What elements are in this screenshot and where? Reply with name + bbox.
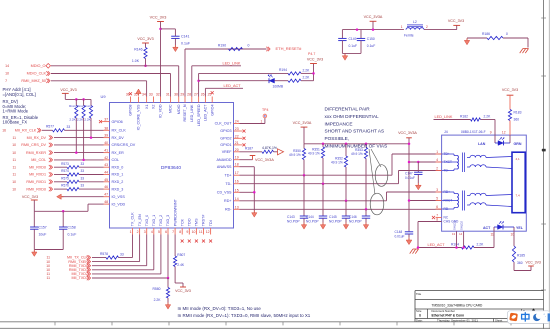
svg-text:47: 47: [104, 193, 108, 197]
svg-text:C143: C143: [287, 215, 295, 219]
svg-text:32: 32: [156, 93, 160, 97]
wire net MII_RX_CLK with series resistor R577 33: [42, 129, 53, 131]
svg-text:10: 10: [12, 151, 16, 155]
ground below C144: [322, 223, 324, 225]
svg-text:RXD_0: RXD_0: [112, 165, 124, 169]
svg-text:TRST#: TRST#: [202, 214, 206, 227]
svg-text:P4.7: P4.7: [308, 52, 315, 56]
svg-text:J4: J4: [444, 130, 448, 134]
svg-text:L2: L2: [413, 20, 417, 24]
no-connect X on J4 NC pin: [432, 216, 435, 219]
svg-text:C141: C141: [181, 35, 190, 39]
wire net TD- from pin 16 to J4: [240, 183, 399, 185]
capacitor C148 0.01uF on RXCT: [405, 231, 413, 233]
svg-text:14: 14: [5, 64, 9, 68]
svg-text:LED_ACT: LED_ACT: [204, 104, 208, 121]
wire net MII_TXD2 to U9 pin 5: [92, 273, 161, 275]
svg-text:Sheet: Sheet: [495, 318, 503, 322]
svg-text:xxx OHM DIFFERENTIAL: xxx OHM DIFFERENTIAL: [325, 114, 379, 119]
svg-text:TXD_3: TXD_3: [166, 215, 170, 226]
svg-text:0.01uF: 0.01uF: [395, 235, 405, 239]
svg-text:6: 6: [165, 230, 167, 234]
svg-text:8: 8: [436, 218, 438, 222]
wire VCC_3V3 to IO_VDD pin 32: [160, 22, 162, 97]
svg-text:33: 33: [67, 125, 71, 129]
svg-text:36: 36: [126, 93, 130, 97]
svg-text:GPIO3: GPIO3: [220, 129, 231, 133]
svg-text:Rxxx: Rxxx: [84, 104, 91, 108]
svg-text:2: 2: [137, 230, 139, 234]
svg-text:R194: R194: [279, 68, 287, 72]
svg-text:2.2K: 2.2K: [84, 117, 91, 121]
svg-text:CLK_OUT: CLK_OUT: [215, 122, 233, 126]
svg-text:46: 46: [104, 185, 108, 189]
svg-text:11: 11: [13, 165, 17, 169]
svg-text:C158: C158: [68, 225, 76, 229]
svg-text:33: 33: [81, 162, 85, 166]
svg-text:R578: R578: [100, 252, 108, 256]
svg-text:7: 7: [172, 230, 174, 234]
transformer T1 TD channel: [442, 153, 454, 155]
svg-text:IO_VDD: IO_VDD: [159, 104, 163, 118]
svg-text:ANAVDD: ANAVDD: [216, 158, 231, 162]
svg-text:NO.POP: NO.POP: [329, 220, 342, 224]
svg-text:TXD_0: TXD_0: [145, 215, 149, 226]
svg-text:43: 43: [104, 163, 108, 167]
svg-text:4: 4: [151, 230, 153, 234]
wire J4 pin 10 to resistor R185 360: [513, 231, 515, 246]
svg-text:VCC_3V3A: VCC_3V3A: [293, 121, 312, 125]
svg-text:39: 39: [104, 134, 108, 138]
ground below R580: [167, 303, 169, 305]
svg-text:11: 11: [199, 230, 203, 234]
wire net MII_RXD1 with series resistor R574 33: [54, 174, 67, 176]
svg-text:11: 11: [47, 276, 51, 280]
svg-text:1: 1: [261, 119, 263, 123]
svg-text:IO_CORE_VSS: IO_CORE_VSS: [137, 104, 141, 130]
capacitor C144 NO_POP: [322, 184, 324, 216]
wire LED_ACT LED row from U9 pin 26: [197, 79, 200, 82]
svg-text:22: 22: [235, 134, 239, 138]
svg-text:SHORT AND STRAIGHT AS: SHORT AND STRAIGHT AS: [325, 129, 385, 134]
svg-text:VCC_3V3: VCC_3V3: [60, 88, 76, 92]
U9 right pins 24-13 with names: [234, 123, 240, 125]
svg-text:MII_RX_DV: MII_RX_DV: [27, 136, 47, 140]
svg-text:24: 24: [235, 120, 239, 124]
svg-text:IO_VDD: IO_VDD: [112, 202, 126, 206]
svg-text:MINIMUM NUMBER OF VIAS: MINIMUM NUMBER OF VIAS: [325, 144, 388, 149]
svg-text:0: 0: [506, 32, 508, 36]
svg-text:C149: C149: [349, 37, 357, 41]
svg-text:LED_SPEED: LED_SPEED: [197, 104, 201, 126]
svg-text:0.1uF: 0.1uF: [181, 42, 191, 46]
resistor R580 2.2K strap pulldown: [167, 278, 169, 288]
resistor R184 2.2K: [462, 246, 475, 249]
svg-text:25: 25: [208, 93, 212, 97]
svg-text:08B0-1X1T-06-F: 08B0-1X1T-06-F: [461, 130, 486, 134]
svg-text:33: 33: [149, 93, 153, 97]
svg-text:VCC_3V3: VCC_3V3: [502, 88, 518, 92]
svg-text:MDIO_O: MDIO_O: [31, 64, 46, 68]
svg-text:POSSIBLE,: POSSIBLE,: [325, 136, 350, 141]
svg-text:DIFFERENTIAL PAIR: DIFFERENTIAL PAIR: [325, 107, 371, 112]
chassis ground at R186: [525, 49, 528, 54]
wire J4 shield pins 13 14 to chassis net: [456, 231, 458, 247]
resistor R351 49.9 1% termination: [322, 144, 324, 147]
ground symbol up-arrow on IO_CORE_VSS pin 35: [138, 94, 140, 96]
svg-text:34: 34: [142, 93, 146, 97]
svg-text:TXD_2: TXD_2: [159, 215, 163, 226]
svg-text:GPIO1: GPIO1: [220, 143, 231, 147]
svg-text:41: 41: [104, 149, 108, 153]
wire net MII_COL: [54, 159, 104, 161]
svg-text:LED_LINK: LED_LINK: [223, 61, 241, 65]
svg-text:40: 40: [104, 141, 108, 145]
svg-text:23: 23: [235, 127, 239, 131]
wire CHS GND to chassis: [418, 221, 442, 223]
svg-text:C148: C148: [395, 230, 403, 234]
svg-text:RXD_2: RXD_2: [112, 180, 124, 184]
wire net RMII_RXD1 with series resistor R575 33: [54, 181, 67, 183]
svg-text:GPIO8: GPIO8: [129, 105, 133, 116]
wire LED_SPEED row from U9 pin 27: [198, 73, 200, 96]
svg-text:TCK: TCK: [180, 218, 184, 226]
capacitor C149 0.1uF: [341, 30, 343, 39]
svg-text:19: 19: [235, 156, 239, 160]
svg-text:RXD_1: RXD_1: [112, 173, 124, 177]
svg-text:3: 3: [144, 230, 146, 234]
wire net MII_TXD3 to U9 pin 6: [92, 277, 168, 279]
svg-text:11: 11: [13, 158, 17, 162]
wire net RMII_TXD0 to U9 pin 3: [92, 265, 147, 267]
resistor R185 360: [512, 246, 515, 262]
svg-text:X1: X1: [145, 105, 149, 110]
svg-text:26: 26: [201, 93, 205, 97]
svg-text:17: 17: [235, 171, 239, 175]
ground below ANAVSS: [253, 211, 255, 213]
svg-text:12: 12: [206, 230, 210, 234]
off-page connector ETH_RESET#: [266, 47, 268, 51]
svg-text:TX_EN: TX_EN: [138, 214, 142, 226]
svg-text:11: 11: [491, 232, 495, 236]
svg-text:16: 16: [235, 180, 239, 184]
svg-text:MDC: MDC: [169, 104, 173, 113]
svg-text:MDIO_CLK: MDIO_CLK: [27, 72, 47, 76]
svg-text:VCC_3V3: VCC_3V3: [448, 19, 464, 23]
wire RXCT center tap: [409, 200, 442, 202]
svg-text:LED_LINK: LED_LINK: [190, 104, 194, 122]
wire TXCT center tap: [409, 161, 442, 163]
svg-text:R573: R573: [61, 162, 69, 166]
svg-text:1: 1: [130, 230, 132, 234]
no-connect X on U9 JTAG pins 8-12: [181, 240, 184, 243]
svg-text:RMII_MHZ_50: RMII_MHZ_50: [21, 79, 46, 83]
svg-text:2.2K: 2.2K: [303, 68, 311, 72]
wire net RMII_TXEN to U9 pin 2: [92, 261, 140, 263]
node MDIO pull-up junction: [144, 65, 147, 68]
svg-text:VREF: VREF: [222, 150, 233, 154]
power VCC_3V3 below R185: [528, 265, 534, 267]
wire net LED_LINK to J4 pin 9: [434, 119, 471, 121]
power arrow on VREF net: [278, 149, 284, 155]
toolbar chinese zhong icon drawn with strokes: [522, 314, 529, 319]
wire net MDIO_O to U9 MDIO pin 30: [51, 65, 179, 67]
RJ45 jack contact bar: [512, 152, 525, 213]
svg-text:NO.POP: NO.POP: [306, 220, 319, 224]
svg-text:49.9 1%: 49.9 1%: [289, 153, 301, 157]
node R353 junction: [365, 208, 368, 211]
svg-text:14: 14: [459, 232, 463, 236]
svg-text:TD-: TD-: [225, 182, 232, 186]
wire net RMII_TXD1 to U9 pin 4: [92, 269, 154, 271]
svg-text:48: 48: [104, 200, 108, 204]
svg-text:VCC_3V3: VCC_3V3: [150, 16, 167, 20]
svg-text:MII_RX_CLK: MII_RX_CLK: [15, 129, 37, 133]
node CD_VSS junction: [253, 191, 256, 194]
svg-text:RX_ER: RX_ER: [112, 151, 125, 155]
capacitor C143 NO_POP: [303, 175, 305, 216]
svg-text:44: 44: [104, 171, 108, 175]
svg-text:DP83640: DP83640: [161, 165, 181, 171]
resistor R190 0 ohm: [229, 47, 243, 50]
svg-text:R190: R190: [218, 43, 226, 47]
svg-text:TXD_1: TXD_1: [152, 215, 156, 226]
resistor R507 2.4K PWRDOWN pull: [174, 235, 176, 257]
ellipse marker RD pair: [370, 193, 384, 215]
svg-text:Date:: Date:: [416, 318, 423, 322]
svg-text:Thursday, September 01, 2011: Thursday, September 01, 2011: [437, 318, 478, 322]
U9 left pins 37-48 with names: [104, 121, 110, 123]
svg-text:RMII_RXER: RMII_RXER: [26, 151, 46, 155]
wire to C141: [161, 28, 176, 30]
svg-text:4: 4: [436, 158, 438, 162]
svg-text:10: 10: [12, 187, 16, 191]
svg-text:Ethernet PHY & Conn: Ethernet PHY & Conn: [432, 314, 465, 318]
svg-text:SHLD2: SHLD2: [459, 221, 463, 230]
svg-text:TMS: TMS: [195, 218, 199, 226]
svg-text:0.1uF: 0.1uF: [349, 44, 358, 48]
svg-text:49.9 1%: 49.9 1%: [351, 152, 363, 156]
sheet border right middle mark: [542, 149, 546, 152]
node MII_TXD3 strap junction: [167, 277, 170, 280]
svg-text:C146: C146: [349, 215, 357, 219]
resistor R352 49.9 1% termination: [345, 144, 347, 156]
svg-text:5: 5: [158, 230, 160, 234]
svg-text:1: 1: [401, 25, 403, 29]
wire analog supply rail: [342, 29, 404, 31]
svg-text:RMII_CRS_DV: RMII_CRS_DV: [21, 143, 46, 147]
ground below C146: [365, 223, 367, 225]
power VCC_3V3 rail to IO_VDD pin 48 with caps: [88, 203, 104, 205]
svg-text:R186: R186: [482, 32, 490, 36]
resistor R183 360: [508, 110, 511, 121]
svg-text:RX_CLK: RX_CLK: [112, 129, 127, 133]
svg-text:2: 2: [436, 167, 438, 171]
svg-text:2.2K: 2.2K: [477, 243, 485, 247]
svg-text:Ferrite: Ferrite: [404, 33, 414, 37]
svg-text:MII_RXD1: MII_RXD1: [29, 173, 46, 177]
svg-text:CHS GND: CHS GND: [444, 220, 460, 224]
svg-text:X2: X2: [152, 105, 156, 110]
svg-text:VCC_3V3: VCC_3V3: [526, 261, 541, 265]
ground below C141: [174, 45, 176, 47]
svg-text:13: 13: [235, 205, 239, 209]
svg-text:R187: R187: [245, 147, 253, 151]
svg-text:RMII_RXD1: RMII_RXD1: [26, 180, 46, 184]
svg-text:LED_ACT: LED_ACT: [224, 84, 242, 88]
capacitor C150 0.1uF: [360, 30, 362, 39]
svg-text:VCC_3V3: VCC_3V3: [175, 289, 191, 293]
svg-text:11: 11: [13, 173, 17, 177]
resistor R562 2.2K strap: [82, 106, 85, 119]
svg-text:38: 38: [104, 126, 108, 130]
svg-text:37: 37: [104, 118, 108, 122]
svg-text:GRN: GRN: [514, 142, 522, 146]
svg-text:In MII mode (RX_DV=0): TXD3=1,: In MII mode (RX_DV=0): TXD3=1, No use: [178, 306, 262, 311]
svg-text:=[AND[0:1], COL]: =[AND[0:1], COL]: [3, 92, 36, 97]
svg-text:PWRDOWN/INT: PWRDOWN/INT: [173, 198, 177, 226]
wire ANAVSS and CD_VSS to ground: [240, 166, 255, 168]
wire net RMII_CRS_DV: [54, 144, 104, 146]
svg-text:R507: R507: [177, 253, 185, 257]
svg-text:7,4: 7,4: [516, 194, 520, 198]
svg-text:CRS/CRS_DV: CRS/CRS_DV: [112, 143, 136, 147]
svg-text:R182: R182: [460, 115, 468, 119]
ground below C149 C150: [344, 54, 346, 56]
svg-text:11: 11: [13, 136, 17, 140]
capacitor C157 10uF: [33, 211, 35, 227]
no-connect X on U9 pin 36 GPIO8: [129, 92, 132, 95]
svg-text:33: 33: [81, 184, 85, 188]
wire net LED_ACT to J4 pin 11: [418, 247, 462, 249]
svg-text:0: 0: [248, 44, 250, 48]
svg-text:RD-: RD-: [225, 208, 232, 212]
svg-text:C145: C145: [329, 215, 337, 219]
test point TP4 on CLK_OUT pin 24: [240, 123, 265, 125]
wire termination VCC rail: [304, 143, 409, 145]
svg-text:R184: R184: [451, 242, 459, 246]
svg-text:In RMII mode (RX_DV=1): TXD3=0: In RMII mode (RX_DV=1): TXD3=0, RMII sla…: [178, 313, 311, 318]
resistor R350 49.9 1% termination: [303, 144, 305, 149]
svg-text:12: 12: [502, 130, 506, 134]
sheet border bottom: [0, 321, 544, 323]
ellipse marker TD pair: [375, 165, 388, 187]
svg-text:20: 20: [235, 148, 239, 152]
pointer lines to differential pairs: [371, 149, 381, 167]
capacitor C145 NO_POP: [345, 201, 347, 216]
svg-text:COL: COL: [112, 158, 120, 162]
svg-text:R577: R577: [46, 125, 54, 129]
svg-text:0.1uF: 0.1uF: [68, 232, 77, 236]
no-connect X on U9 pin 25 GPIO4: [211, 91, 214, 94]
svg-text:Document Number: Document Number: [432, 309, 456, 313]
svg-text:42: 42: [104, 156, 108, 160]
LED D4 100MB indicator: [269, 78, 275, 83]
svg-text:C157: C157: [39, 225, 47, 229]
svg-text:0.01uF: 0.01uF: [405, 176, 415, 180]
svg-text:TDO: TDO: [188, 218, 192, 226]
wire net TD+ from pin 17 to J4: [240, 174, 393, 176]
op-amp U9 DP83640 PHY IC body: [110, 103, 234, 229]
svg-text:1.0K: 1.0K: [132, 59, 140, 63]
svg-text:31: 31: [166, 93, 170, 97]
svg-text:MII_RXD0: MII_RXD0: [29, 165, 46, 169]
ground arrow at R186: [466, 38, 468, 40]
svg-text:2.2K: 2.2K: [303, 76, 311, 80]
wire net LED_ACT label from U9 pin 25: [204, 88, 206, 96]
svg-text:9: 9: [186, 230, 188, 234]
svg-text:R580: R580: [153, 287, 161, 291]
svg-text:RMII_RXD0: RMII_RXD0: [26, 187, 46, 191]
wire net MII_TX_CLK to U9 pin 1: [92, 257, 106, 259]
svg-text:28: 28: [187, 93, 191, 97]
svg-text:GPIO2: GPIO2: [220, 137, 231, 141]
node strap junction on RMII_RXER: [75, 151, 78, 154]
U9 top pins 36-25 with names: [130, 97, 132, 103]
svg-text:LAN: LAN: [478, 142, 486, 146]
svg-text:VCC_3V3: VCC_3V3: [22, 195, 38, 199]
off-page connector MDIO_O: [46, 64, 51, 69]
svg-text:R574: R574: [61, 169, 69, 173]
capacitor C147 0.01uF on TXCT: [417, 162, 419, 172]
wire net MII_RX_DV: [54, 137, 104, 139]
svg-text:2.2K: 2.2K: [154, 298, 162, 302]
svg-text:SHLD1: SHLD1: [452, 221, 456, 230]
svg-text:MDIO: MDIO: [177, 104, 181, 114]
svg-text:LED_LINK: LED_LINK: [435, 115, 453, 119]
capacitor C146 NO_POP: [365, 209, 367, 216]
svg-text:Rxxx: Rxxx: [69, 104, 76, 108]
svg-text:R183: R183: [514, 110, 522, 114]
svg-text:ANAVSS: ANAVSS: [217, 165, 232, 169]
svg-text:NO.POP: NO.POP: [349, 220, 362, 224]
svg-text:IO_VSS: IO_VSS: [112, 195, 126, 199]
power VCC_3V3 below R507: [180, 286, 186, 288]
svg-text:13: 13: [452, 232, 456, 236]
svg-text:2.2K: 2.2K: [77, 117, 84, 121]
resistor R353 49.9 1% termination: [365, 144, 367, 148]
svg-text:RXD_3: RXD_3: [112, 187, 124, 191]
LED GRN inside J4 with pins 9 and 12: [494, 135, 496, 143]
svg-text:3: 3: [436, 188, 438, 192]
svg-text:5: 5: [436, 197, 438, 201]
svg-text:360: 360: [517, 261, 523, 265]
no-connect X on U9 pins 23 22 21: [240, 130, 243, 132]
svg-text:10uF: 10uF: [39, 232, 47, 236]
wire net LED_LINK from U9 pin 28: [191, 66, 193, 97]
svg-text:MII_TXD3: MII_TXD3: [71, 276, 88, 280]
off-page connector RMII_MHZ_50: [46, 79, 48, 83]
svg-text:U9: U9: [101, 94, 106, 99]
wire net MII_RXD0 with series resistor R573 33: [54, 166, 67, 168]
connector J4 RJ45 with magnetics body: [442, 135, 527, 231]
ground below C147: [417, 183, 419, 185]
svg-text:GPIO4: GPIO4: [210, 105, 214, 116]
svg-text:2.2K: 2.2K: [484, 115, 492, 119]
input method toolbar overlay: [532, 308, 536, 311]
resistor R195 2.2K: [288, 79, 301, 82]
resistor R194 2.2K: [288, 72, 301, 75]
ground below C143: [303, 223, 305, 225]
svg-text:2.4K: 2.4K: [177, 263, 185, 267]
svg-text:VCC_3V3: VCC_3V3: [307, 58, 323, 62]
svg-text:10: 10: [12, 143, 16, 147]
svg-text:100MB: 100MB: [273, 85, 284, 89]
svg-text:MII_COL: MII_COL: [31, 158, 46, 162]
resistor R563 2.2K strap: [89, 106, 92, 119]
svg-text:7: 7: [5, 79, 7, 83]
LED YEL inside J4 with pins 11 and 10: [493, 227, 495, 231]
